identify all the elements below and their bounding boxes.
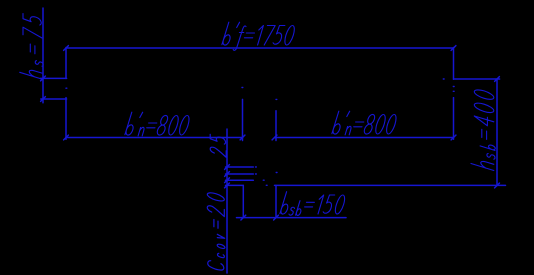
- rib bottom left extension: [226, 184, 244, 186]
- label 25: [210, 134, 226, 157]
- tick bar 3: [225, 178, 230, 183]
- right flange edge dash b: [452, 90, 455, 92]
- tick b'f right: [451, 46, 456, 51]
- label h_s=75: [20, 14, 43, 80]
- label b'n=800 right: [332, 111, 396, 135]
- tick h_s bottom: [41, 97, 46, 102]
- label b'n=800 left: [125, 112, 189, 136]
- tick bar 1: [225, 165, 230, 170]
- bar dash c: [262, 179, 265, 181]
- rib left edge upper: [242, 99, 244, 140]
- h_s dimension line: [42, 8, 44, 103]
- bar dash a: [255, 166, 258, 168]
- left flange edge upper segment: [65, 48, 67, 79]
- bar dash b: [255, 173, 258, 175]
- left flange edge lower segment: [65, 98, 67, 140]
- b_sb dimension line: [237, 217, 347, 219]
- h_s top extension line: [40, 77, 66, 79]
- rebar bar line 1: [226, 166, 254, 168]
- rebar bar line 3: [226, 179, 254, 181]
- bar dash e: [275, 172, 278, 174]
- tick b'n right at rib: [272, 135, 277, 140]
- label b'f=1750: [222, 22, 294, 50]
- right flange edge dash a: [452, 86, 455, 88]
- rib right edge dot: [275, 98, 278, 100]
- tick b'n right end: [451, 135, 456, 140]
- rebar dimension line: [226, 129, 228, 273]
- bsb left extension line: [242, 185, 244, 217]
- tick rib bottom: [225, 183, 230, 188]
- right overhang dimension line b'n=800: [275, 137, 454, 139]
- tick h_sb bottom: [495, 183, 500, 188]
- tick bar 2: [225, 172, 230, 177]
- tick b'n left end: [64, 135, 69, 140]
- tick b_sb left: [241, 215, 246, 220]
- bar dash d: [265, 184, 268, 186]
- tick b'f left: [64, 46, 69, 51]
- left overhang dimension line b'n=800: [66, 137, 243, 139]
- h_s bottom extension line: [41, 98, 67, 100]
- h_sb extension dash: [442, 78, 445, 80]
- rib bottom right extension to h_sb line: [275, 184, 506, 186]
- rib right edge upper: [275, 111, 277, 141]
- left flange edge dash: [65, 87, 68, 89]
- h_sb top extension line: [454, 78, 500, 80]
- flange top edge / b'f dimension line: [66, 47, 454, 49]
- h_sb dimension line: [496, 79, 498, 186]
- right flange edge lower segment: [453, 98, 455, 140]
- label h_sb=400: [471, 90, 495, 171]
- tick h_sb top: [495, 77, 500, 82]
- stray dot above rib left edge: [241, 87, 244, 89]
- rebar bar line 2: [226, 173, 254, 175]
- tick h_s top: [41, 76, 46, 81]
- tick b'n left at rib: [240, 135, 245, 140]
- label Ccov=20: [207, 193, 225, 270]
- tick b_sb right: [274, 215, 279, 220]
- label b_sb=150: [280, 192, 345, 216]
- bsb right extension line: [275, 185, 277, 217]
- right flange edge upper segment: [453, 48, 455, 80]
